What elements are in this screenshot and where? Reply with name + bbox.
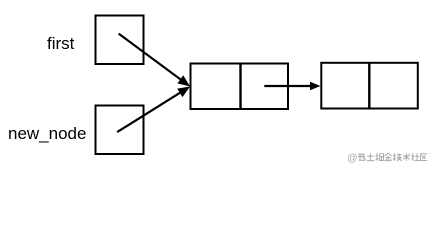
box new_node (pointer square) <box>96 106 144 155</box>
char 技 <box>393 153 402 161</box>
arrow from first box to node 1 <box>119 34 182 81</box>
char 区 <box>421 154 428 161</box>
char 社 <box>411 153 419 160</box>
arrow from new_node box to node 1 <box>117 92 181 132</box>
arrow from node 1 next cell to node 2 <box>264 85 312 87</box>
node 2 divider <box>368 63 370 109</box>
char 土 <box>367 153 374 160</box>
char 稀 <box>358 153 365 161</box>
svg-text:@: @ <box>347 152 358 164</box>
node 1 (two-cell linked list node) <box>191 64 289 110</box>
char 掘 <box>376 153 384 160</box>
svg-text:first: first <box>47 34 75 53</box>
watermark @稀土掘金技术社区 (drawn in gray strokes) <box>347 152 427 164</box>
node 2 (two-cell linked list node) <box>321 63 418 109</box>
node 1 divider <box>239 64 241 110</box>
char 金 <box>384 153 391 160</box>
box first (pointer square) <box>96 16 144 65</box>
svg-text:new_node: new_node <box>8 124 86 143</box>
char 术 <box>403 153 410 161</box>
